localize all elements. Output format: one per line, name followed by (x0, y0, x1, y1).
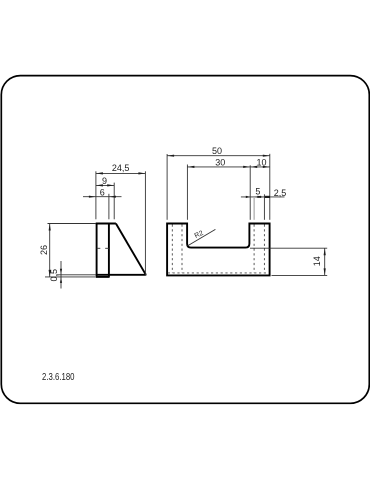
side view: top edge (96, 223, 116, 225)
front view: U-channel outline (167, 224, 270, 276)
side view: front plate column (97, 224, 109, 277)
hidden line in right wall x=264.4 (263, 225, 265, 273)
extension line x=187.4 for dim 30 (186, 165, 188, 220)
extension line x=114.2 for dim 9 (113, 183, 115, 220)
svg-text:5: 5 (255, 186, 260, 196)
hidden line in left wall x=182 (181, 225, 183, 273)
side view: gusset diagonal edge (116, 224, 146, 275)
svg-text:6: 6 (100, 188, 105, 198)
extension line x=108.9 for dim 6 (108, 194, 110, 220)
svg-text:2.3.6.180: 2.3.6.180 (42, 371, 74, 382)
side view: mid centreline tick (97, 247, 109, 249)
extension line bottom face for dim 0,5 (57, 274, 97, 276)
dimension 5 (241, 186, 285, 198)
extension line top-left for dim 26 (48, 223, 97, 225)
extension line x=254.1 for dim 5 (253, 198, 255, 220)
extension line bottom for dim 14 (272, 274, 328, 276)
drawing sheet border (1, 76, 369, 404)
extension line left edge (24,5 / 9 / 6) (95, 171, 97, 219)
hidden line step near bottom (168, 272, 269, 274)
dimension 14 (312, 248, 326, 275)
svg-text:9: 9 (102, 176, 107, 186)
svg-text:24,5: 24,5 (112, 163, 130, 173)
svg-text:R2: R2 (194, 230, 205, 240)
dimension 24,5 (96, 163, 145, 175)
extension line x=167.1 for dim 50 (166, 154, 168, 220)
dimension 0,5 (49, 261, 62, 289)
dimension 50 (167, 146, 270, 157)
dimension 30 (187, 158, 250, 168)
side view: plate bottom step 0.5 lower (96, 276, 110, 278)
dimension 26 (39, 224, 51, 277)
svg-text:50: 50 (212, 146, 222, 156)
dimension 6 (83, 188, 122, 198)
drawing number 2.3.6.180 (42, 371, 74, 382)
svg-text:10: 10 (256, 158, 266, 168)
hidden line in right wall x=254.1 (253, 225, 255, 273)
hidden line in left wall x=172.3 (171, 225, 173, 273)
extension line x=269.8 for dims 50/10/2,5 (269, 154, 271, 220)
dimension 2,5 (265, 188, 286, 198)
extension line plate bottom for dim 26 (45, 276, 95, 278)
dimension 9 (96, 176, 114, 186)
side view: bottom face (97, 274, 147, 276)
extension line x=145.4 for dim 24,5 (144, 171, 146, 275)
extension line x=264.4 for dims 5/2,5 (263, 194, 265, 220)
extension line channel floor for dim 14 (250, 247, 327, 249)
extension line x=250.2 for dims 30/10 (249, 165, 251, 220)
svg-text:14: 14 (312, 256, 322, 266)
svg-text:2,5: 2,5 (274, 188, 287, 198)
leader R2 (188, 229, 216, 246)
svg-text:0,5: 0,5 (49, 269, 59, 282)
dimension 10 (250, 158, 270, 168)
svg-text:26: 26 (39, 245, 49, 255)
svg-text:30: 30 (215, 158, 225, 168)
